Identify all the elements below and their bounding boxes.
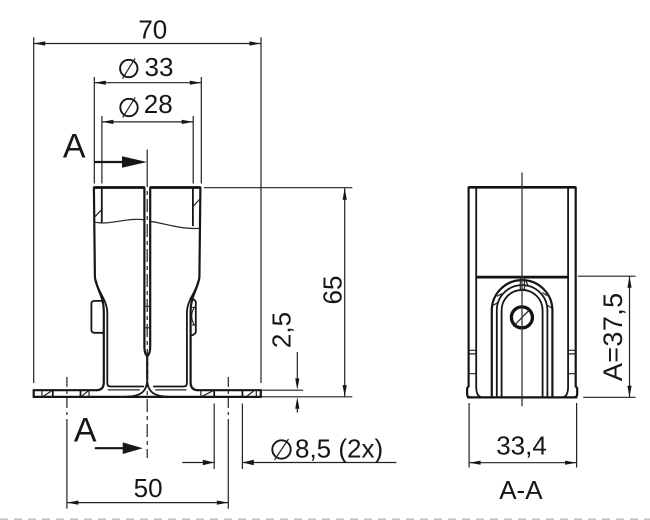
section A-A: top edge [469,186,576,189]
front view: flange hole edges [53,390,243,397]
svg-text:8,5 (2x): 8,5 (2x) [295,434,383,464]
section arrow A bottom [95,447,124,449]
section A-A: inner wall left [476,187,482,397]
dimension dia33: dimension line [94,82,201,84]
dimension 33,4: extension lines [469,403,576,468]
front view: flange bottom edge [34,396,261,398]
front view: wall hatch left [94,210,101,218]
section A-A: bottom edge [467,396,577,398]
svg-text:A-A: A-A [499,475,543,505]
dimension dia28: dimension line [102,121,193,123]
dimension 50: dimension line [67,502,228,504]
front view: tube inner wall left (section) [101,188,103,222]
front view: flange end caps [34,390,261,397]
dimension dia8,5: arrowheads [203,460,214,466]
svg-text:A: A [74,412,97,450]
dimension dia33: diameter symbol [120,60,137,77]
section A-A: inner wall right [562,187,568,397]
front view: neck inner line right with flange interior fillet [154,282,198,387]
front view: latch tab right outline [190,298,195,335]
front view: flange hatch ticks [43,391,253,396]
front view: latch tab right ticks [192,307,196,325]
svg-text:28: 28 [144,89,173,119]
dimension dia28: diameter symbol [120,99,137,116]
dimension 70: arrowheads [34,41,46,45]
dimension A=37,5: arrowheads [627,276,631,288]
svg-text:A: A [63,128,86,166]
svg-text:A=37,5: A=37,5 [598,292,628,381]
section A-A: arch outer arc and legs [492,280,553,397]
front view: slit closed crack [146,356,148,379]
front view: flange top edge [34,389,261,391]
dimension 50: arrowheads [67,501,79,505]
front view: flange interior top edges [108,389,187,391]
dimension 2,5: leader above [296,352,298,379]
dimension 2,5: extension line top [262,389,303,391]
section A-A: arch hatch ticks [492,281,552,308]
dimension 65: extension lines [204,188,352,397]
front view: tube outer wall left with neck and flange flare [94,188,104,391]
dimension 33,4: arrowheads [469,461,481,465]
front view: slit right edge [147,188,150,357]
section A-A: arch inner arc and legs [502,290,543,397]
svg-text:33: 33 [145,52,174,82]
front view: slit step ticks [144,306,150,328]
front view: cusp fillet curves at flange [127,380,168,397]
front view: tube top edge [94,186,200,189]
dimension dia8,5: extension lines [214,404,242,470]
front view: latch tab left [91,301,103,333]
dimension 70: extension lines [34,37,261,383]
section arrow A top [94,161,123,163]
dimension 33,4: dimension line [469,462,576,464]
section A-A: outer shell right [574,187,577,397]
section A-A: screw hole ring [511,307,532,328]
section A-A: vertical centerline [521,173,523,407]
dimension dia8,5: dimension lines [182,462,396,464]
dimension 2,5: leader below [296,409,298,413]
dimension dia33: arrowheads [94,81,106,85]
front view: break wavy line right [150,221,200,228]
dimension dia28: arrowheads [102,120,114,124]
section A-A: cut flat top line [476,276,568,279]
section A-A: side notch ticks left [469,350,477,373]
dimension dia8,5: diameter symbol [272,440,290,458]
dimension 65: dimension line [344,188,346,396]
svg-text:50: 50 [134,473,163,503]
section A-A: side notch ticks right [568,350,576,373]
front view: flange section dividers [42,390,256,397]
front view: tube inner wall right (section) [192,188,194,225]
section A-A: screw hole slash [513,310,530,327]
section A-A: apex slit notch [520,277,524,289]
dimension 70: dimension line [34,43,261,45]
front view: right hole centerline [227,377,229,421]
front view: break wavy line left [94,219,144,223]
front view: tube outer wall right with neck and flange flare [191,188,201,391]
svg-text:65: 65 [318,276,348,305]
section A-A: outer shell left [467,187,470,397]
front view: vertical centerline (cut line A) [146,150,148,174]
svg-text:2,5: 2,5 [267,312,297,348]
svg-text:70: 70 [138,15,167,45]
dimension A=37,5: extension lines [578,276,636,397]
front view: wall hatch right [193,199,200,207]
page bottom dashed border [0,518,650,520]
front view: latch tab right inner arc [192,307,195,325]
dimension dia33: extension lines [94,77,201,184]
dimension A=37,5: dimension line [629,276,631,397]
front view: left hole centerline [66,377,68,426]
section A-A: arch middle arc and legs [497,285,548,397]
dimension dia28: extension lines [102,116,193,184]
front view: slit left edge [144,188,147,357]
dimension 65: arrowheads [343,188,347,200]
svg-text:33,4: 33,4 [496,431,547,461]
front view: neck inner line left with flange interior fillet [96,282,143,387]
